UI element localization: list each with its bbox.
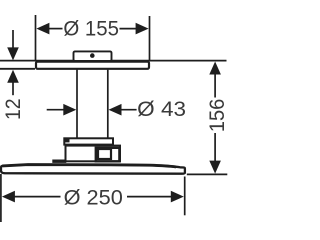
svg-text:156: 156 bbox=[205, 99, 228, 132]
svg-text:12: 12 bbox=[1, 98, 25, 120]
svg-text:Ø 155: Ø 155 bbox=[63, 17, 119, 41]
svg-text:Ø 250: Ø 250 bbox=[64, 186, 123, 210]
svg-text:Ø 43: Ø 43 bbox=[137, 97, 186, 121]
